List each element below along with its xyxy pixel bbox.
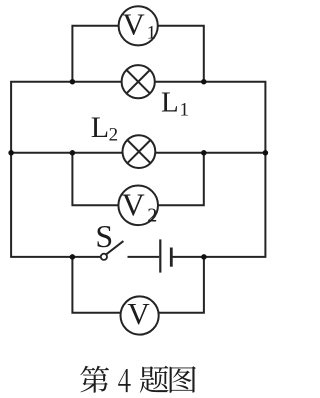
wire top-right loop: L1 row right + right rail + battery row right segment xyxy=(155,82,266,257)
wire battery middle segment: switch to battery xyxy=(128,256,160,258)
wire V2 branch right: from V2 to node D up to L2 row xyxy=(158,153,204,206)
svg-text:V: V xyxy=(122,187,145,223)
wire bottom loop right: V row to node F xyxy=(159,257,204,313)
node A junction dot xyxy=(70,79,76,85)
node left-rail L2 junction dot xyxy=(8,150,14,156)
wire bottom loop left: node E down to V row xyxy=(72,257,120,313)
node F junction dot xyxy=(201,254,207,260)
svg-text:V: V xyxy=(127,296,150,331)
wire L2 row right segment xyxy=(155,152,265,154)
svg-text:S: S xyxy=(95,218,113,254)
battery cell: short plate xyxy=(170,248,173,267)
lamp L1 xyxy=(122,65,155,98)
wire L2 row left segment xyxy=(11,152,122,154)
svg-text:1: 1 xyxy=(180,100,190,121)
caption character 第 xyxy=(80,366,109,393)
svg-text:2: 2 xyxy=(109,124,119,145)
label L2 xyxy=(91,111,118,145)
voltmeter V xyxy=(121,296,159,334)
wire V1 branch: left lead from node A up and right to V1 xyxy=(72,26,118,83)
svg-text:L: L xyxy=(91,111,109,144)
switch S xyxy=(101,241,124,260)
battery cell: long plate xyxy=(159,239,161,272)
node C junction dot xyxy=(70,150,76,156)
lamp L2 xyxy=(122,135,155,168)
svg-text:2: 2 xyxy=(147,205,157,227)
node D junction dot xyxy=(201,150,207,156)
svg-text:V: V xyxy=(122,7,145,42)
caption character 图 xyxy=(170,366,196,393)
wire top-left loop: L1 row left + left rail + battery row left segment xyxy=(11,82,122,257)
caption character 题 xyxy=(140,366,169,393)
label L1 xyxy=(161,87,189,121)
voltmeter V2 xyxy=(118,186,158,227)
voltmeter V1 xyxy=(119,6,158,45)
node B junction dot xyxy=(201,79,207,85)
svg-text:L: L xyxy=(161,87,179,119)
node E junction dot xyxy=(70,254,76,260)
wire V1 branch: right lead from V1 to node B xyxy=(158,26,204,83)
node right-rail L2 junction dot xyxy=(263,150,269,156)
wire V2 branch left: from node C down and right to V2 xyxy=(72,153,118,206)
svg-text:1: 1 xyxy=(147,23,157,44)
caption character 4 xyxy=(118,369,131,392)
